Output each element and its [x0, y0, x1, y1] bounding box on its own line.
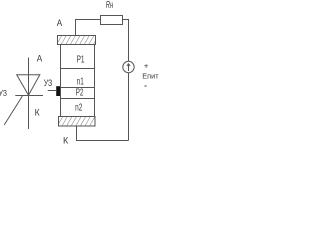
label - (negative terminal) — [145, 85, 147, 87]
svg-text:A: A — [57, 18, 63, 29]
wire gate lead of thyristor symbol — [4, 96, 22, 125]
wire gate stub — [48, 90, 56, 92]
svg-text:P1: P1 — [77, 53, 85, 65]
thyristor symbol triangle — [17, 75, 40, 96]
source Epit circle — [123, 61, 134, 72]
junction line n1/P2 — [61, 87, 95, 89]
anode metal contact (hatched) — [57, 36, 99, 45]
cathode metal contact (hatched) — [58, 117, 100, 127]
wire cathode down and right to source negative — [77, 126, 129, 141]
svg-text:P2: P2 — [76, 87, 84, 99]
p-n-p-n structure body outline — [61, 45, 95, 117]
svg-text:УЗ: УЗ — [0, 88, 7, 98]
junction line P1/n1 — [61, 68, 95, 70]
svg-text:УЗ: УЗ — [44, 78, 53, 89]
wire anode lead of thyristor symbol (vertical through triangle) — [28, 58, 30, 130]
svg-text:A: A — [37, 54, 43, 65]
svg-text:Eпит: Eпит — [142, 74, 159, 81]
svg-text:n2: n2 — [75, 103, 82, 114]
svg-text:+: + — [144, 62, 149, 71]
source arrow (current direction) — [127, 64, 130, 71]
svg-text:Rн: Rн — [106, 0, 114, 11]
svg-text:К: К — [63, 136, 69, 147]
thyristor symbol cathode bar — [15, 95, 43, 97]
svg-text:К: К — [35, 108, 40, 119]
junction line P2/n2 — [61, 98, 95, 100]
wire resistor to source positive — [123, 20, 129, 62]
gate metal contact (black rectangle) — [56, 86, 60, 96]
wire source negative down — [128, 73, 130, 141]
resistor Rn (load) — [101, 16, 123, 25]
wire from structure anode up and right to load resistor — [76, 20, 101, 37]
